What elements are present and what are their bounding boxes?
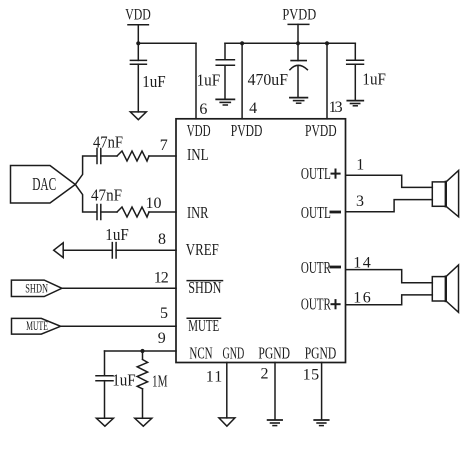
svg-text:14: 14 xyxy=(353,254,371,271)
IC pin label MUTE (with overline) xyxy=(187,316,220,335)
svg-text:1M: 1M xyxy=(152,371,168,390)
wire 470uF bottom lead xyxy=(297,67,299,97)
wire rail right corner xyxy=(354,43,356,60)
svg-text:2: 2 xyxy=(261,366,269,383)
power flag VDD xyxy=(125,6,151,24)
ground (arrow style) below C8 xyxy=(96,418,113,426)
wire PVDD rail xyxy=(225,42,355,44)
svg-text:NCN: NCN xyxy=(189,344,212,363)
svg-text:DAC: DAC xyxy=(32,174,56,194)
capacitor C4 1uF (right) xyxy=(347,60,364,64)
wire VDD stub xyxy=(137,25,139,44)
wire DAC to INL (diagonal+riser) xyxy=(75,156,96,185)
wire PVDD stub xyxy=(297,24,299,43)
svg-text:3: 3 xyxy=(356,193,364,210)
resistor R1 (INL series) xyxy=(117,151,149,161)
svg-text:6: 6 xyxy=(199,101,207,118)
svg-text:1uF: 1uF xyxy=(105,225,129,244)
speaker SP1 xyxy=(432,170,458,216)
node VDD junction xyxy=(136,41,140,45)
wire rail left drop xyxy=(224,43,226,59)
capacitor C6 47nF (INR) xyxy=(97,205,101,220)
wire NCN cap top lead xyxy=(104,351,106,376)
svg-text:INR: INR xyxy=(187,203,209,222)
svg-text:47nF: 47nF xyxy=(93,133,123,152)
svg-text:47nF: 47nF xyxy=(91,186,122,205)
capacitor C5 47nF (INL) xyxy=(97,149,101,164)
ground (arrow style) below C1 xyxy=(130,112,146,120)
SHDN input flag xyxy=(11,280,62,296)
wire OUTR- pin 14 xyxy=(346,270,432,283)
svg-text:SHDN: SHDN xyxy=(25,281,48,296)
svg-text:9: 9 xyxy=(158,330,166,347)
wire SHDN to pin 12 xyxy=(62,287,176,289)
wire VDD cap bottom lead xyxy=(137,64,139,112)
wire OUTL- pin 3 xyxy=(346,200,432,212)
svg-text:10: 10 xyxy=(146,195,162,212)
svg-text:1: 1 xyxy=(356,156,364,173)
svg-text:12: 12 xyxy=(154,270,169,287)
capacitor C3 470uF (polarized) xyxy=(290,61,308,70)
svg-text:INL: INL xyxy=(187,145,209,164)
wire C8 bottom lead xyxy=(104,381,106,419)
svg-text:VREF: VREF xyxy=(186,240,219,259)
wire C7 to pin 8 xyxy=(116,249,176,251)
ground (earth style) PGND pin15 xyxy=(314,420,329,426)
svg-text:PGND: PGND xyxy=(305,344,337,363)
wire MUTE to pin 5 xyxy=(61,325,176,327)
svg-text:11: 11 xyxy=(206,368,223,385)
node NCN junction xyxy=(140,349,144,353)
ground (earth style) below C4 xyxy=(347,101,363,106)
node rail-470uF junction xyxy=(296,41,300,45)
VREF arrow terminal xyxy=(54,243,64,258)
wire DAC to INR (diagonal+riser) xyxy=(75,185,96,213)
wire C6 to R2 xyxy=(101,211,117,213)
svg-text:1uF: 1uF xyxy=(112,371,136,390)
MUTE input flag xyxy=(12,318,61,334)
svg-text:5: 5 xyxy=(160,305,168,322)
wire 1M top lead xyxy=(142,351,144,359)
wire pin 6 drop xyxy=(195,43,197,119)
ground (earth style) below C3 xyxy=(290,98,308,104)
IC pin label OUTL+ xyxy=(301,164,340,183)
wire OUTR+ pin 16 xyxy=(346,295,432,305)
svg-text:4: 4 xyxy=(249,100,257,117)
wire pin 13 drop xyxy=(326,43,328,119)
DAC source flag xyxy=(11,166,76,204)
speaker SP2 xyxy=(432,265,458,312)
ground (arrow style) GND xyxy=(219,418,235,426)
node rail-pin4 junction xyxy=(240,41,244,45)
svg-text:PVDD: PVDD xyxy=(305,121,337,140)
wire C2 bottom lead xyxy=(224,65,226,98)
svg-text:PVDD: PVDD xyxy=(282,6,316,23)
resistor R3 1M xyxy=(137,360,147,389)
svg-text:OUTL: OUTL xyxy=(301,203,331,222)
svg-text:GND: GND xyxy=(223,344,245,363)
ground (earth style) PGND pin2 xyxy=(268,420,283,426)
wire OUTL+ pin 1 xyxy=(346,175,432,187)
wire R1 to pin 7 xyxy=(149,155,176,157)
wire GND pin 11 xyxy=(226,363,228,418)
wire VDD cap top lead xyxy=(137,43,139,60)
wire R2 to pin 10 xyxy=(149,211,176,213)
wire PGND pin 2 xyxy=(274,363,276,420)
wire VDD to pin 6 xyxy=(138,42,196,44)
capacitor C2 1uF (pin 6 side) xyxy=(216,60,234,66)
svg-text:470uF: 470uF xyxy=(248,70,288,89)
svg-text:PVDD: PVDD xyxy=(231,121,263,140)
svg-text:7: 7 xyxy=(160,137,168,154)
svg-text:16: 16 xyxy=(353,289,371,306)
wire pin 4 drop xyxy=(241,43,243,119)
svg-text:VDD: VDD xyxy=(125,6,151,23)
ground (earth style) below C2 xyxy=(216,99,234,105)
svg-text:13: 13 xyxy=(329,99,343,116)
svg-text:15: 15 xyxy=(303,366,320,383)
svg-text:OUTR: OUTR xyxy=(301,258,331,277)
wire 470uF top lead xyxy=(297,43,299,60)
svg-text:MUTE: MUTE xyxy=(26,318,48,333)
wire C5 to R1 xyxy=(101,155,117,157)
IC pin label OUTR+ xyxy=(301,295,340,314)
svg-text:1uF: 1uF xyxy=(362,70,386,89)
wire 1M bottom lead xyxy=(142,389,144,418)
svg-text:OUTR: OUTR xyxy=(301,295,331,314)
IC pin label SHDN (with overline) xyxy=(187,278,222,297)
svg-text:8: 8 xyxy=(158,231,166,248)
svg-text:VDD: VDD xyxy=(187,121,211,140)
IC pin label OUTL- xyxy=(301,203,340,222)
IC pin label OUTR- xyxy=(301,258,340,277)
node rail-pin13 junction xyxy=(325,41,329,45)
IC U1 body xyxy=(176,119,346,363)
power flag PVDD xyxy=(282,6,316,24)
svg-text:1uF: 1uF xyxy=(142,72,166,91)
capacitor C8 1uF (NCN) xyxy=(96,376,113,381)
ground (arrow style) below R3 xyxy=(135,418,152,426)
wire PGND pin 15 xyxy=(321,363,323,420)
wire NCN pin 9 xyxy=(105,350,177,352)
svg-text:OUTL: OUTL xyxy=(301,164,331,183)
resistor R2 (INR series) xyxy=(117,207,149,217)
wire C4 bottom lead xyxy=(354,64,356,100)
capacitor C1 1uF (VDD) xyxy=(130,60,146,64)
svg-text:1uF: 1uF xyxy=(197,71,221,90)
svg-text:PGND: PGND xyxy=(258,344,290,363)
wire VREF left xyxy=(63,249,112,251)
capacitor C7 1uF (VREF) xyxy=(112,243,116,258)
